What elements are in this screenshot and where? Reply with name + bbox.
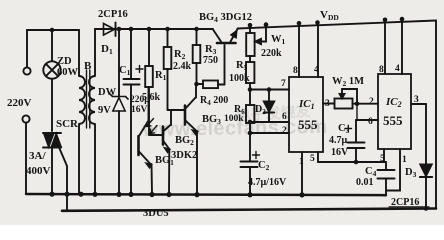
svg-text:4: 4: [395, 64, 400, 74]
svg-text:555: 555: [383, 113, 403, 128]
diode D3 2CP16: [420, 104, 432, 209]
resistor R5 100k: [246, 56, 254, 105]
node upper mains terminal: [23, 67, 30, 74]
svg-text:1: 1: [402, 155, 407, 165]
resistor R3 750: [193, 29, 201, 84]
phototransistor BG1 3DU5: [139, 87, 158, 194]
svg-text:3DU5: 3DU5: [143, 208, 169, 219]
resistor R4 200: [197, 81, 225, 89]
transformer core: [87, 70, 90, 128]
diode D1 2CP16: [104, 23, 116, 37]
svg-text:3: 3: [414, 95, 419, 105]
thyristor SCR 3A/400V: [43, 133, 61, 194]
svg-text:4.7μ/16V: 4.7μ/16V: [248, 177, 287, 188]
watermark: [142, 102, 328, 141]
svg-text:8: 8: [293, 66, 298, 76]
svg-text:5.6k: 5.6k: [142, 92, 161, 103]
wire IC2 pin8: [384, 23, 386, 75]
svg-text:220k: 220k: [261, 48, 282, 59]
svg-text:8: 8: [379, 65, 384, 75]
wire pin7 line: [250, 89, 289, 91]
svg-text:3A/: 3A/: [29, 150, 46, 162]
svg-text:5: 5: [310, 154, 315, 164]
wire IC2 pin6 line: [356, 119, 378, 121]
svg-text:2CP16: 2CP16: [98, 9, 128, 20]
svg-text:6: 6: [368, 117, 373, 127]
svg-text:3DK2: 3DK2: [171, 150, 197, 161]
svg-text:4: 4: [314, 65, 319, 75]
svg-text:2CP16: 2CP16: [391, 197, 419, 208]
svg-text:16V: 16V: [331, 147, 349, 158]
svg-text:B: B: [84, 60, 92, 72]
label 2CP16 underline: [389, 206, 429, 208]
svg-text:750: 750: [203, 55, 218, 66]
capacitor C1 220u/16V: [124, 29, 144, 194]
svg-text:DW: DW: [98, 87, 117, 98]
pin labels IC2: [368, 64, 419, 165]
capacitor C2 4.7u/16V: [241, 133, 260, 194]
pin labels IC1: [281, 65, 330, 167]
capacitor C4 0.01: [378, 162, 395, 195]
wire control line pin5: [318, 161, 386, 163]
svg-text:16V: 16V: [131, 105, 148, 115]
wire rectified rail left segment: [95, 28, 213, 30]
svg-text:ZD: ZD: [57, 56, 72, 67]
wire IC1 pin8: [298, 24, 300, 77]
transformer B primary winding: [79, 30, 85, 194]
svg-text:9V: 9V: [98, 105, 111, 116]
resistor R1 5.6k: [145, 29, 153, 134]
svg-text:6: 6: [282, 112, 287, 122]
wire Vdd rail: [238, 21, 437, 29]
svg-text:555: 555: [298, 117, 318, 132]
IC U1 555 box: [289, 77, 323, 152]
wire trigger line bottom: [62, 209, 436, 211]
wire IC1 pin3 to W2: [323, 103, 335, 105]
wire pin6 line: [250, 121, 289, 123]
wire IC2 pin1: [386, 149, 400, 191]
transformer secondary winding: [89, 29, 95, 194]
svg-text:4.7μ: 4.7μ: [329, 135, 348, 146]
transistor BG3: [168, 84, 198, 194]
wire Vdd rail end down right side: [435, 21, 437, 209]
potentiometer W1 220k: [246, 25, 266, 56]
svg-text:SCR: SCR: [56, 118, 79, 130]
wire left vertical to upper terminal: [26, 30, 28, 67]
svg-text:2.4k: 2.4k: [173, 61, 192, 72]
wire lower terminal to ground bus: [25, 123, 27, 194]
svg-text:0.01: 0.01: [356, 177, 374, 188]
wire ground bus: [26, 194, 386, 195]
wire IC1 pin5: [317, 152, 319, 162]
wire top-left horizontal: [27, 29, 79, 31]
wire IC2 pin2-6 tie: [356, 104, 358, 120]
diode D2: [264, 90, 274, 123]
svg-text:400V: 400V: [26, 165, 51, 177]
svg-text:2: 2: [282, 126, 287, 136]
resistor R2 2.4k: [164, 29, 172, 110]
wire pin2 line: [250, 132, 289, 134]
wire IC2 pin4: [401, 22, 403, 74]
svg-text:W2 1M: W2 1M: [332, 76, 364, 88]
svg-text:100k: 100k: [229, 73, 250, 84]
IC U2 555 box: [378, 74, 411, 149]
wire IC1 pin1: [301, 152, 303, 194]
lamp ZD 60W: [43, 30, 60, 131]
wire IC2 pin3 out: [411, 103, 426, 105]
svg-text:1: 1: [299, 157, 304, 167]
wire SCR gate to trigger line: [58, 145, 67, 210]
svg-text:2: 2: [369, 97, 374, 107]
zener DW 9V: [110, 29, 128, 194]
transistor BG4 3DG12 pass: [213, 29, 238, 85]
node lower mains terminal: [22, 115, 29, 122]
wire IC2 pin5: [383, 149, 385, 162]
wire IC1 pin4: [317, 24, 319, 78]
svg-text:7: 7: [281, 79, 286, 89]
svg-text:R4 200: R4 200: [200, 95, 228, 107]
svg-text:60W: 60W: [57, 67, 79, 78]
svg-text:5: 5: [380, 154, 385, 164]
svg-text:220V: 220V: [7, 97, 32, 109]
transistor BG2 3DK2: [149, 110, 171, 194]
capacitor C3 4.7u/16V: [345, 120, 365, 162]
svg-text:3: 3: [325, 99, 330, 109]
potentiometer W2 1M: [335, 89, 379, 109]
resistor R6 100k: [246, 105, 254, 133]
svg-text:100k: 100k: [224, 114, 244, 124]
svg-text:BG4 3DG12: BG4 3DG12: [199, 12, 252, 24]
